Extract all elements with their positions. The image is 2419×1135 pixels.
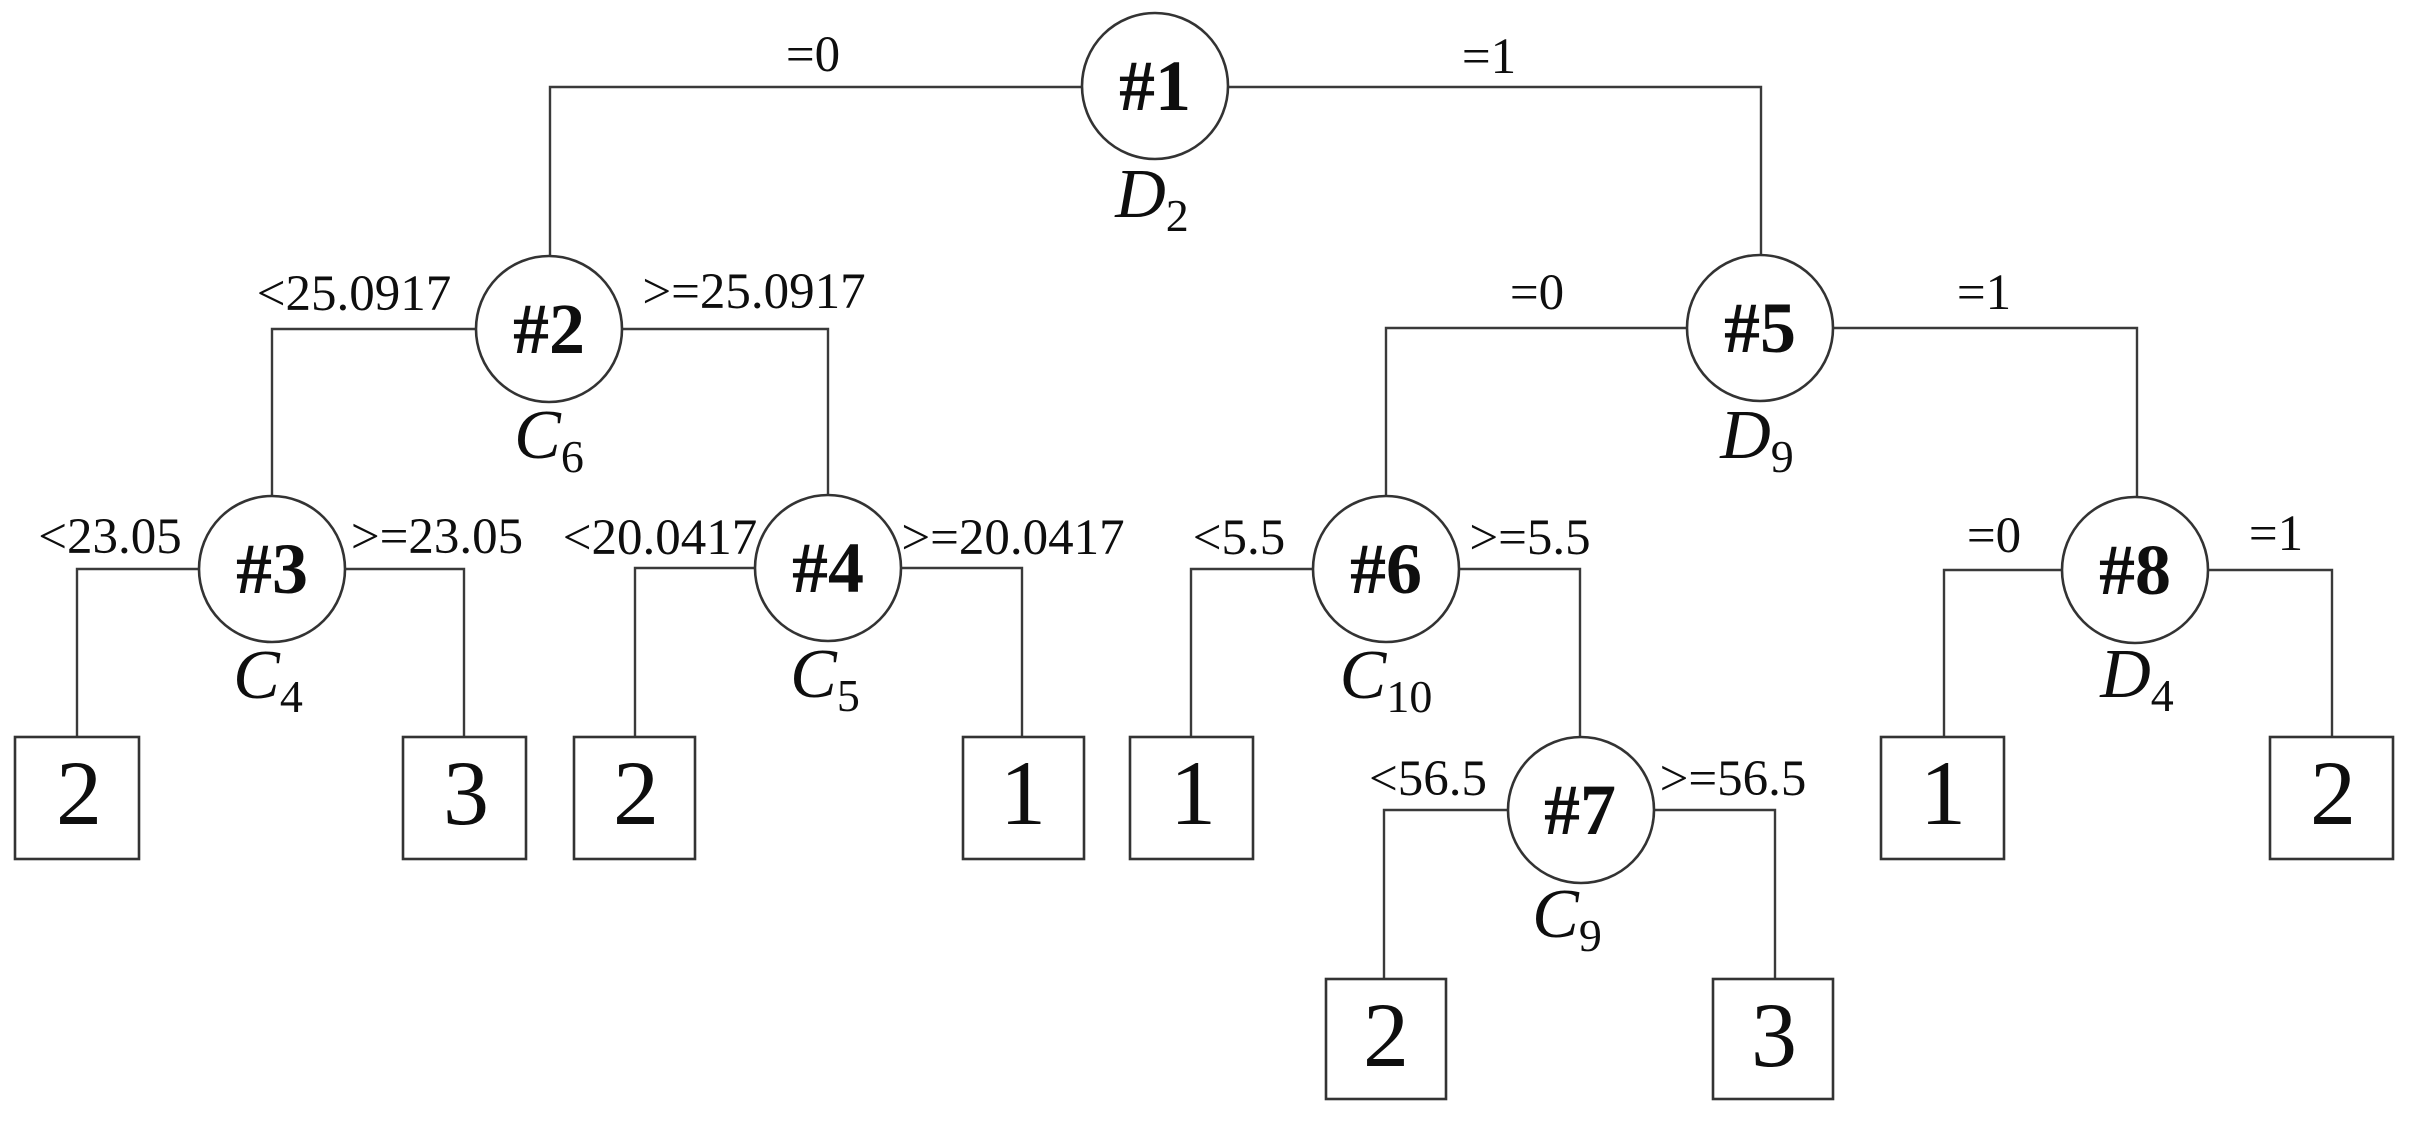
- leaf box 2 (under #7 left): [1326, 979, 1446, 1099]
- wire #5 to #8: [1760, 328, 2137, 572]
- svg-text:#8: #8: [2099, 530, 2171, 610]
- wire #2 to #4: [549, 329, 828, 570]
- svg-text:=0: =0: [786, 27, 840, 83]
- wire #1 to #2: [550, 87, 1155, 330]
- svg-text:<56.5: <56.5: [1369, 751, 1487, 807]
- wire #3 to leaf 3: [272, 569, 464, 745]
- wire #8 to leaf 2d: [2135, 570, 2332, 745]
- svg-text:2: 2: [613, 742, 659, 844]
- svg-text:<23.05: <23.05: [38, 509, 182, 565]
- svg-text:1: 1: [1000, 742, 1046, 844]
- svg-text:>=56.5: >=56.5: [1660, 751, 1807, 807]
- svg-text:#7: #7: [1544, 770, 1616, 850]
- wire #6 to #7: [1386, 569, 1580, 812]
- wire #8 to leaf 1c: [1944, 570, 2135, 745]
- leaf box 1 (under #8 left): [1881, 737, 2004, 859]
- svg-text:>=5.5: >=5.5: [1469, 510, 1590, 566]
- wire #1 to #5: [1155, 87, 1761, 330]
- svg-text:1: 1: [1920, 742, 1966, 844]
- node #2 circle: [476, 256, 622, 402]
- wire #4 to leaf 1: [828, 568, 1022, 745]
- wire #7 to leaf 3b: [1581, 810, 1775, 987]
- svg-text:>=25.0917: >=25.0917: [642, 264, 865, 320]
- wire #6 to leaf 1b: [1191, 569, 1386, 745]
- node #8 circle: [2062, 497, 2208, 643]
- svg-text:<25.0917: <25.0917: [257, 266, 452, 322]
- svg-text:=1: =1: [1957, 265, 2011, 321]
- leaf box 1 (under #6 left): [1130, 737, 1253, 859]
- node #5 circle: [1687, 255, 1833, 401]
- svg-text:=1: =1: [2249, 506, 2303, 562]
- node #7 circle: [1508, 737, 1654, 883]
- leaf box 2 (under #4 left): [574, 737, 695, 859]
- leaf box 3 (under #7 right): [1713, 979, 1833, 1099]
- svg-text:=1: =1: [1462, 29, 1516, 85]
- wire #5 to #6: [1386, 328, 1760, 571]
- wire #2 to #3: [272, 329, 549, 571]
- svg-text:#4: #4: [792, 528, 864, 608]
- svg-text:>=20.0417: >=20.0417: [901, 510, 1124, 566]
- svg-text:#5: #5: [1724, 288, 1796, 368]
- svg-text:2: 2: [1363, 984, 1409, 1086]
- svg-text:#2: #2: [513, 289, 585, 369]
- node #1 circle: [1082, 13, 1228, 159]
- svg-text:2: 2: [56, 742, 102, 844]
- node #6 circle: [1313, 496, 1459, 642]
- svg-text:<20.0417: <20.0417: [563, 510, 758, 566]
- node #3 circle: [199, 496, 345, 642]
- wire #4 to leaf 2b: [635, 568, 828, 745]
- svg-text:3: 3: [1751, 984, 1797, 1086]
- svg-text:1: 1: [1170, 742, 1216, 844]
- svg-text:=0: =0: [1510, 265, 1564, 321]
- leaf box 3 (under #3 right): [403, 737, 526, 859]
- svg-text:>=23.05: >=23.05: [351, 509, 523, 565]
- wire #7 to leaf 2c: [1384, 810, 1581, 987]
- wire #3 to leaf 2: [77, 569, 272, 745]
- svg-text:#3: #3: [236, 529, 308, 609]
- svg-text:#6: #6: [1350, 529, 1422, 609]
- svg-text:=0: =0: [1967, 508, 2021, 564]
- svg-text:#1: #1: [1119, 46, 1191, 126]
- leaf box 2 (under #8 right): [2270, 737, 2393, 859]
- svg-text:<5.5: <5.5: [1193, 510, 1286, 566]
- svg-text:3: 3: [443, 742, 489, 844]
- svg-text:2: 2: [2310, 742, 2356, 844]
- node #4 circle: [755, 495, 901, 641]
- leaf box 1 (under #4 right): [963, 737, 1084, 859]
- leaf box 2 (under #3 left): [15, 737, 139, 859]
